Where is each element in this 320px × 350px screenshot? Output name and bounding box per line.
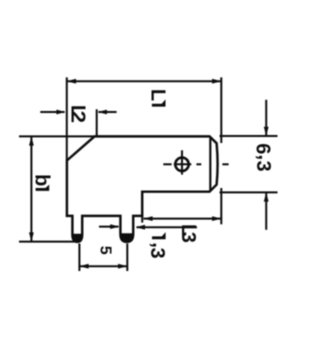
L3 left extension stub (step edge extended): [141, 216, 143, 223]
6,3 dimension line lower tail: [265, 192, 267, 229]
svg-text:3: 3: [146, 248, 168, 259]
5 left arrowhead: [79, 264, 88, 269]
dimension line L1: [67, 80, 222, 82]
dimension line b1: [30, 136, 32, 241]
hole centerline vertical: [181, 150, 183, 174]
L2 right arrowhead (points left): [98, 110, 107, 115]
hole centerline horizontal: [163, 163, 228, 165]
L1 right arrowhead: [212, 79, 221, 84]
svg-text:L: L: [147, 89, 169, 101]
6,3 top extension line: [220, 135, 278, 137]
label 6,3: [252, 143, 276, 171]
b1 bottom arrowhead (points down): [29, 232, 34, 241]
label 5: [96, 246, 113, 255]
svg-text:3: 3: [177, 232, 199, 243]
blade tip inner line: [209, 138, 211, 190]
L2 left arrowhead (points right): [56, 110, 65, 115]
5 right arrowhead: [118, 264, 127, 269]
6,3 bottom arrowhead (points up): [264, 192, 269, 201]
b1 top extension line: [19, 135, 94, 137]
1,3 left arrow line: [99, 226, 119, 228]
svg-text:6: 6: [252, 143, 274, 154]
part outline (faston tab body with legs): [67, 136, 218, 242]
L3 left arrowhead: [143, 216, 152, 221]
extension line right (shared by L1 and L3): [220, 77, 222, 143]
6,3 bottom extension line: [220, 191, 278, 193]
hole (detent dimple): [175, 158, 188, 171]
left leg tip blob: [72, 234, 82, 242]
b1 top arrowhead (points up): [29, 136, 34, 145]
1,3 right arrowhead (points left): [136, 225, 145, 230]
svg-text:5: 5: [96, 246, 113, 255]
label L2: [67, 105, 89, 123]
svg-text:2: 2: [67, 111, 89, 123]
6,3 top arrowhead (points down): [264, 127, 269, 136]
L2 arrow lines: [40, 111, 64, 113]
1,3 left arrowhead (points right): [110, 224, 119, 229]
svg-text:,: ,: [254, 155, 276, 161]
L2 right extension line: [96, 109, 98, 135]
svg-text:3: 3: [252, 161, 274, 172]
L1 left arrowhead: [67, 79, 76, 84]
6,3 dimension line upper tail: [265, 100, 267, 136]
label 1,3: [146, 232, 170, 259]
5 right extension line: [126, 244, 128, 272]
b1 bottom extension line: [19, 241, 75, 243]
svg-text:b: b: [31, 174, 53, 186]
label b1: [31, 174, 53, 191]
extension line left (shared by L1 and L2): [66, 77, 68, 160]
label L3: [177, 224, 199, 243]
dimension line L3: [143, 218, 221, 220]
1,3 right arrow line: [137, 226, 198, 228]
label L1: [147, 89, 169, 107]
right leg tip blob: [120, 233, 133, 242]
dimension line 5: [79, 265, 127, 267]
L3 right arrowhead: [212, 216, 221, 221]
5 left extension line: [78, 244, 80, 272]
